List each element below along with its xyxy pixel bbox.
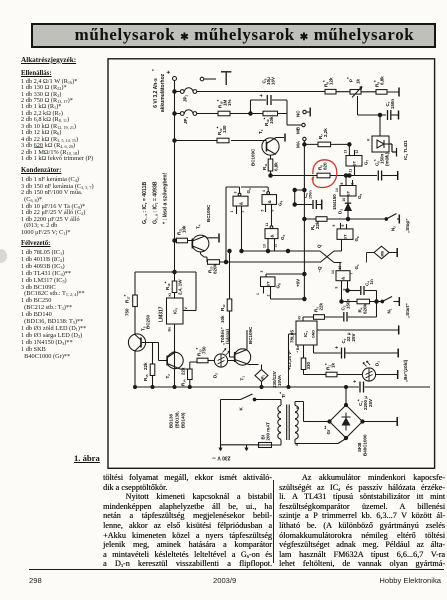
svg-text:2,4, 1W: 2,4, 1W xyxy=(178,279,183,295)
wire node y175.5 row xyxy=(271,175,378,177)
node P wiper xyxy=(378,113,381,116)
jumper JP2 xyxy=(176,88,197,102)
figure caption 1. abra xyxy=(74,453,100,463)
svg-text:T2: T2 xyxy=(165,374,171,379)
diamond MB meter xyxy=(367,246,398,262)
svg-text:P*: P* xyxy=(346,77,354,82)
svg-text:ST: ST xyxy=(346,190,351,196)
capacitor C6 150n (mua) xyxy=(373,152,398,181)
svg-text:150n: 150n xyxy=(346,298,351,309)
svg-text:13: 13 xyxy=(263,244,267,248)
svg-text:6,8k: 6,8k xyxy=(274,162,279,171)
resistor R20 620k on -Q wire xyxy=(207,257,320,274)
node C6 left xyxy=(344,174,347,177)
svg-text:LM317: LM317 xyxy=(159,306,165,322)
svg-text:K: K xyxy=(239,407,244,411)
svg-text:150n: 150n xyxy=(309,190,313,199)
svg-text:150n: 150n xyxy=(390,99,395,110)
resistor R16 2,4 1W xyxy=(164,279,183,295)
node R11 bottom xyxy=(269,174,272,177)
banner xyxy=(31,23,436,48)
node R6 right / G5 xyxy=(348,174,351,177)
resistor R12 10k xyxy=(220,249,235,357)
node G1 out xyxy=(346,289,349,292)
svg-text:7: 7 xyxy=(350,273,354,275)
svg-text:Ki: Ki xyxy=(168,293,172,297)
svg-text:200 mAT: 200 mAT xyxy=(266,422,271,441)
terminal MB xyxy=(287,123,305,134)
svg-text:G6: G6 xyxy=(354,236,360,242)
transistor T4 BC109C xyxy=(192,204,219,257)
svg-text:13: 13 xyxy=(344,150,348,154)
bottom bus y387 xyxy=(135,386,359,388)
svg-text:25V: 25V xyxy=(351,333,356,341)
terminal MA + 6V bus xyxy=(296,137,307,299)
resistor R5 22k xyxy=(305,217,347,230)
svg-text:N1: N1 xyxy=(387,308,393,313)
svg-text:*: * xyxy=(151,69,156,71)
svg-text:11: 11 xyxy=(349,169,353,173)
capacitor C3 150n xyxy=(341,298,377,321)
gate G1 xyxy=(331,263,360,302)
svg-text:G5...8 : IC3 = 4093B: G5...8 : IC3 = 4093B xyxy=(153,181,159,224)
scan smudge left margin xyxy=(0,249,7,263)
resistor R19 10k xyxy=(263,111,278,126)
LED D2 Toltes sarga xyxy=(213,327,235,378)
svg-text:G1...4 : IC2 = 4011B: G1...4 : IC2 = 4011B xyxy=(142,181,148,224)
svg-text:T1: T1 xyxy=(240,376,246,381)
svg-text:3: 3 xyxy=(260,271,264,273)
IC5 LM317 xyxy=(159,293,197,332)
svg-text:BD140): BD140) xyxy=(181,412,186,428)
resistor R9 6,8k xyxy=(373,76,387,94)
svg-text:G3: G3 xyxy=(246,188,252,194)
svg-text:12: 12 xyxy=(355,150,359,154)
node R5 left xyxy=(303,217,306,220)
svg-text:ST: ST xyxy=(352,160,357,166)
svg-text:22k: 22k xyxy=(181,367,186,375)
svg-text:620k: 620k xyxy=(213,263,218,274)
IC4 TL431 xyxy=(367,136,410,160)
svg-text:BC109C: BC109C xyxy=(206,204,211,222)
node G2 pin13 xyxy=(266,249,269,252)
svg-text:8: 8 xyxy=(340,183,344,185)
transformer Tr xyxy=(278,392,346,446)
flipflop cross wires Q -Q xyxy=(317,244,335,273)
svg-text:Ki: Ki xyxy=(298,316,302,320)
svg-text:R16*: R16* xyxy=(164,281,172,290)
node R7 right xyxy=(348,143,351,146)
resistor R18 1M 1% xyxy=(216,99,232,115)
svg-text:JP2: JP2 xyxy=(183,94,189,102)
wire C9 branch xyxy=(251,100,288,125)
svg-text:(BD138,: (BD138, xyxy=(175,411,180,428)
svg-text:N2: N2 xyxy=(391,226,397,231)
svg-text:14: 14 xyxy=(335,188,339,192)
svg-text:BC109C: BC109C xyxy=(251,148,256,166)
IC1 78L05 xyxy=(290,316,318,353)
capacitor C7 150n xyxy=(385,99,399,120)
gate G7 pins 13 12 11 xyxy=(344,150,370,176)
node battery jp2 xyxy=(173,90,176,93)
resistor R8 12k xyxy=(322,77,336,94)
svg-text:5: 5 xyxy=(332,225,336,227)
resistor R4 620k + switch N1 Start xyxy=(340,297,410,319)
svg-text:R17*: R17* xyxy=(123,294,131,303)
svg-text:&: & xyxy=(270,234,275,238)
svg-text:1n: 1n xyxy=(369,279,374,285)
svg-text:22k: 22k xyxy=(319,302,324,310)
svg-text:D1: D1 xyxy=(375,361,381,366)
svg-text:10k: 10k xyxy=(182,225,187,233)
svg-text:R11: R11 xyxy=(262,163,268,170)
svg-text:11: 11 xyxy=(265,223,269,227)
node bus y272 xyxy=(173,270,176,273)
capacitor C1 2200u 25V xyxy=(353,380,431,410)
svg-text:(műa.): (műa.) xyxy=(385,152,390,166)
red correction circle around R6 xyxy=(312,160,337,188)
gate G4 xyxy=(241,187,284,226)
wire top rail y92 xyxy=(197,91,399,94)
jumper JP1 xyxy=(176,110,197,124)
svg-text:akkumulátorhoz: akkumulátorhoz xyxy=(160,73,166,112)
diamond M1 meter xyxy=(255,370,268,388)
svg-text:K: K xyxy=(367,138,371,141)
svg-text:6 V/ 3,2 Ah-s: 6 V/ 3,2 Ah-s xyxy=(153,78,159,108)
svg-text:1N4150: 1N4150 xyxy=(332,194,337,210)
node battery jp1 xyxy=(173,112,176,115)
capacitor C9 10u 16V xyxy=(259,77,276,105)
node G3 out xyxy=(240,249,243,252)
svg-text:MA: MA xyxy=(296,140,301,148)
resistor R17 750 xyxy=(123,294,137,334)
svg-text:JP1: JP1 xyxy=(183,116,189,124)
svg-text:+: + xyxy=(353,380,359,383)
svg-text:GND: GND xyxy=(312,330,316,338)
svg-text:R15: R15 xyxy=(143,374,149,381)
transistor T3 BC250 top xyxy=(231,129,285,166)
svg-text:BC250: BC250 xyxy=(146,314,151,329)
fuse Bi 200mAT xyxy=(257,422,282,448)
capacitor C2 22u 25V xyxy=(314,332,399,358)
wire top rail of left analog section y272 xyxy=(135,272,196,311)
svg-text:SKB: SKB xyxy=(357,442,362,452)
terminal NC xyxy=(296,108,311,118)
svg-text:6,8k: 6,8k xyxy=(380,76,385,85)
wire GND rail y330 xyxy=(317,326,399,335)
svg-text:T4: T4 xyxy=(196,224,202,229)
bridge rectifier Gr SKB B40C1000 xyxy=(324,387,398,456)
svg-text:+13,15 V*: +13,15 V* xyxy=(287,350,292,370)
svg-text:G2: G2 xyxy=(280,234,286,240)
svg-text:„Start”: „Start” xyxy=(405,303,410,318)
svg-text:Q: Q xyxy=(317,244,322,248)
transistor T5 BC250 xyxy=(128,314,158,387)
svg-text:G5: G5 xyxy=(357,193,363,199)
node dots bottom bus xyxy=(134,386,348,389)
svg-text:16V: 16V xyxy=(271,77,276,85)
LED D1 Be zold xyxy=(362,359,408,382)
wire R7 to G7 xyxy=(349,144,354,155)
svg-text:G1: G1 xyxy=(354,264,360,270)
wire Q line xyxy=(242,250,321,252)
svg-text:G4: G4 xyxy=(278,200,284,206)
gate G2 xyxy=(263,223,287,251)
resistor R3 22k xyxy=(313,302,343,319)
svg-text:25V: 25V xyxy=(368,399,373,407)
bottom body text left column xyxy=(103,473,272,569)
svg-text:130: 130 xyxy=(222,125,227,133)
svg-text:BC109C: BC109C xyxy=(248,326,253,344)
svg-text:12k: 12k xyxy=(329,77,334,85)
svg-text:T3: T3 xyxy=(258,129,264,134)
node D3 bottom xyxy=(346,217,349,220)
svg-text:Be: Be xyxy=(168,327,172,332)
svg-text:3: 3 xyxy=(234,192,238,194)
svg-text:1: 1 xyxy=(230,211,234,213)
column divider xyxy=(273,480,274,563)
svg-text:10VA: 10VA xyxy=(277,374,282,386)
resistor R13 750 xyxy=(195,346,214,363)
svg-text:1k: 1k xyxy=(356,78,361,84)
svg-text:MB: MB xyxy=(381,251,385,257)
svg-text:750: 750 xyxy=(125,308,130,316)
svg-text:+: + xyxy=(335,346,341,349)
node aux 190 xyxy=(293,188,296,191)
svg-text:D2: D2 xyxy=(213,373,219,378)
node R16 top xyxy=(171,271,173,273)
gate G6 xyxy=(332,223,360,242)
capacitor C4 1n xyxy=(348,279,377,302)
svg-text:2: 2 xyxy=(267,295,271,297)
node Q mid xyxy=(286,249,289,252)
svg-text:–Q: –Q xyxy=(317,266,322,273)
svg-text:MB: MB xyxy=(296,126,301,134)
node G8 to bus xyxy=(303,297,306,300)
svg-text:D3: D3 xyxy=(338,209,344,214)
terminal bar top aux xyxy=(221,72,231,85)
footer rule xyxy=(29,569,444,570)
footer page number xyxy=(29,576,42,585)
svg-text:1%: 1% xyxy=(227,99,232,106)
svg-text:Gr**: Gr** xyxy=(324,425,332,434)
svg-text:10k: 10k xyxy=(220,315,225,323)
svg-text:V: V xyxy=(184,307,188,310)
transistor T2 BC109C xyxy=(159,343,188,379)
resistor R15 22k xyxy=(143,343,155,388)
wire main +Akku bus xyxy=(174,81,176,388)
node R22 xyxy=(173,139,176,142)
svg-text:* : lásd a szövegben!: * : lásd a szövegben! xyxy=(163,172,169,224)
svg-text:BD136: BD136 xyxy=(169,413,174,428)
svg-text:230 V ∼: 230 V ∼ xyxy=(212,455,231,461)
resistor R11 6,8k xyxy=(262,158,279,176)
svg-text:5: 5 xyxy=(261,210,265,212)
svg-text:+: + xyxy=(167,70,173,74)
transformer label 200/12V 10VA xyxy=(272,371,282,388)
svg-text:750: 750 xyxy=(202,346,207,354)
svg-text:2,2k: 2,2k xyxy=(323,128,328,137)
svg-text:ST: ST xyxy=(266,281,271,287)
svg-text:22k: 22k xyxy=(315,221,320,229)
footer magazine name xyxy=(345,576,441,585)
svg-text:1k: 1k xyxy=(331,362,336,368)
node R18/C9 xyxy=(249,112,252,115)
gate G8 xyxy=(256,271,304,300)
svg-text:IC4 TL431: IC4 TL431 xyxy=(403,140,409,160)
svg-text:620k: 620k xyxy=(363,303,368,314)
svg-text:330: 330 xyxy=(306,361,311,369)
svg-text:G7: G7 xyxy=(364,159,370,165)
svg-text:9: 9 xyxy=(335,287,339,289)
mains primary loop + switch K xyxy=(212,394,281,461)
svg-text:22k: 22k xyxy=(143,362,148,370)
svg-text:14: 14 xyxy=(331,270,335,274)
resistor R7 2,2k xyxy=(305,128,349,147)
diode D3 1N4150 xyxy=(332,194,351,219)
svg-text:R12: R12 xyxy=(220,304,226,311)
transistor T1 BC109C xyxy=(234,326,261,381)
svg-text:&: & xyxy=(239,201,244,205)
svg-text:* Be: * Be xyxy=(296,346,300,353)
svg-text:IC1: IC1 xyxy=(303,331,309,338)
svg-text:„Be”(zöld): „Be”(zöld) xyxy=(403,359,408,382)
battery terminal + xyxy=(167,70,177,81)
svg-text:4: 4 xyxy=(262,190,266,192)
resistor R1 1k + LED D1 xyxy=(304,362,363,376)
svg-text:10k: 10k xyxy=(269,116,274,124)
label 6V/3,2Ah akkumulatorhoz xyxy=(151,69,166,112)
resistor R6 620 xyxy=(317,162,330,178)
resistor R2 330 xyxy=(301,345,311,375)
wire wiper to TL431 xyxy=(380,115,386,136)
svg-text:R14: R14 xyxy=(181,379,187,386)
switch N2 Stop xyxy=(350,214,411,234)
resistor R21 10k xyxy=(176,225,192,243)
gate G5 pins 8 9 14 xyxy=(335,177,363,202)
sidebar parts list xyxy=(21,56,76,64)
svg-text:10: 10 xyxy=(342,198,346,202)
terminal bar right of R9 xyxy=(398,88,400,97)
svg-text:B: B xyxy=(296,406,300,409)
svg-text:6: 6 xyxy=(341,225,345,227)
svg-text:Tr*: Tr* xyxy=(279,392,287,398)
trimmer P 1k xyxy=(346,77,380,115)
resistor R14 22k xyxy=(181,362,198,387)
svg-text:+6V: +6V xyxy=(296,279,301,287)
node R7 left xyxy=(303,143,306,146)
wire jp1 row xyxy=(197,113,251,115)
schematic frame xyxy=(108,59,435,469)
transistor note BD136 BD138 BD140 xyxy=(169,411,186,428)
footer issue xyxy=(213,576,236,585)
node R21 xyxy=(173,239,176,242)
svg-text:+: + xyxy=(259,94,265,97)
svg-text:620: 620 xyxy=(323,162,328,170)
wire +13V down xyxy=(289,334,297,387)
gate notes 4011B 4093B xyxy=(142,172,169,224)
svg-text:G8: G8 xyxy=(276,283,282,289)
svg-text:&: & xyxy=(341,276,346,280)
node -Q G3 feedback xyxy=(224,260,227,263)
wire aux bus x294.7 xyxy=(295,190,305,205)
svg-text:ST: ST xyxy=(343,234,348,240)
terminal circle top aux xyxy=(200,77,216,81)
svg-text:„Stop”: „Stop” xyxy=(405,219,410,234)
svg-text:78L05: 78L05 xyxy=(290,330,295,343)
bottom body text right column xyxy=(279,473,445,569)
resistor R22 130 xyxy=(176,125,229,143)
svg-text:1: 1 xyxy=(256,293,260,295)
node +6V G8 xyxy=(303,272,306,275)
svg-text:&: & xyxy=(267,199,272,203)
capacitor C5 150n xyxy=(293,190,322,210)
svg-text:NC: NC xyxy=(296,110,301,117)
wire to G6 xyxy=(334,239,342,262)
svg-text:B40C1000: B40C1000 xyxy=(363,434,368,456)
gate G3 xyxy=(226,187,252,262)
